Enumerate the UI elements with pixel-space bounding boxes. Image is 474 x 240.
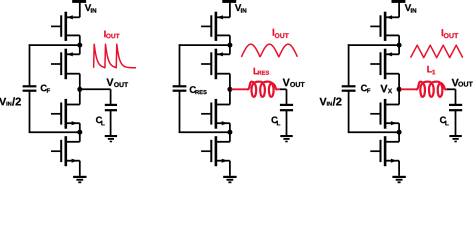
label IOUT (circuit 3, red) [442, 29, 443, 36]
ground symbol below M4 (circuit 1) [73, 176, 86, 183]
capacitor CL load cap (circuit 1) [105, 104, 117, 111]
transistor M2 PMOS (circuit 2) [201, 49, 230, 79]
label VIN (circuit 1) [85, 4, 91, 11]
power rail V_IN bar (circuit 2) [222, 0, 236, 3]
wire: flying-cap rail bottom segment (circuit 2) [179, 91, 181, 133]
label CF (circuit 3) [361, 85, 367, 92]
label VOUT (circuit 1) [106, 79, 113, 86]
transistor M1 PMOS high-side (circuit 2) [201, 12, 230, 41]
transistor M1 PMOS high-side (circuit 3) [370, 12, 399, 41]
label LRES (circuit 2, red) [254, 68, 259, 74]
label CRES (circuit 2) [190, 86, 196, 93]
label CL (circuit 1) [96, 117, 102, 124]
wire: M3 source down to node B (circuit 3) [398, 123, 400, 132]
label VIN/2 across CF (circuit 3) [320, 98, 327, 105]
node A junction dot M1-M2 (circuit 1) [77, 43, 82, 48]
label CL (circuit 2) [271, 117, 277, 124]
transistor M3 NMOS (circuit 3) [370, 99, 399, 129]
wire: M2 drain down to VOUT node (circuit 2) [229, 74, 231, 90]
VOUT node junction dot (circuit 3) [397, 87, 402, 92]
wire: flying-cap rail top segment (circuit 1) [29, 44, 31, 86]
label VIN (circuit 2) [235, 4, 241, 11]
ground symbol below CL (circuit 2) [280, 135, 292, 142]
waveform IOUT spiky pulses (circuit 1, red) [94, 44, 136, 68]
wire: node B to M4 drain (circuit 1) [79, 132, 81, 142]
wire: VOUT node to M3 drain (circuit 2) [229, 89, 231, 104]
capacitor CF flying cap (circuit 3) [342, 85, 356, 92]
label L1 (circuit 3, red) [427, 66, 432, 72]
transistor M3 NMOS (circuit 1) [51, 99, 80, 129]
wire: M2 drain down to VOUT node (circuit 1) [79, 74, 81, 90]
wire: VOUT node to M3 drain (circuit 1) [79, 89, 81, 104]
wire: M3 source down to node B (circuit 1) [79, 123, 81, 132]
capacitor CL load cap (circuit 2) [280, 104, 293, 111]
transistor M1 PMOS high-side (circuit 1) [51, 12, 80, 41]
label IOUT (circuit 2, red) [273, 29, 274, 36]
wire: down to CL (circuit 2) [286, 89, 288, 105]
inductor L1 buck inductor (circuit 3, red) [417, 82, 446, 97]
label VIN (circuit 3) [405, 4, 411, 11]
wire: CL to ground (circuit 2) [286, 110, 288, 135]
wire: LRES to VOUT corner (circuit 2) [276, 88, 281, 90]
wire: M4 source to ground (circuit 1) [79, 161, 81, 176]
waveform IOUT triangular ripple (circuit 3, red) [411, 45, 463, 57]
wire: node A to M2 source (circuit 2) [229, 45, 231, 54]
ground symbol below CL (circuit 1) [105, 135, 117, 142]
transistor M4 NMOS low-side (circuit 3) [370, 136, 399, 166]
label VX switching node (circuit 3) [380, 85, 387, 92]
label VIN/2 across CF (circuit 1) [0, 98, 6, 105]
transistor M4 NMOS low-side (circuit 1) [51, 136, 80, 166]
wire: node A to M2 source (circuit 3) [398, 45, 400, 54]
transistor M2 PMOS (circuit 1) [51, 49, 80, 79]
wire: flying-cap rail top segment (circuit 3) [348, 44, 350, 86]
transistor M4 NMOS low-side (circuit 2) [201, 136, 230, 166]
capacitor CRES resonant flying cap (circuit 2) [173, 85, 187, 92]
wire: node A to flying-cap rail top (circuit 1) [29, 44, 80, 46]
wire: VOUT node to load cap (circuit 1) [80, 88, 111, 90]
label IOUT (circuit 1, red) [104, 31, 105, 38]
node B junction dot M3-M4 (circuit 2) [227, 130, 232, 135]
power rail V_IN bar (circuit 1) [72, 0, 86, 3]
ground symbol below M4 (circuit 3) [392, 176, 405, 183]
transistor M2 PMOS (circuit 3) [370, 49, 399, 79]
ground symbol below M4 (circuit 2) [223, 176, 236, 183]
wire: V_IN rail to M1 source (circuit 2) [229, 2, 231, 17]
wire: down to CL (circuit 1) [110, 89, 112, 105]
node A junction dot M1-M2 (circuit 3) [397, 43, 402, 48]
power rail V_IN bar (circuit 3) [392, 0, 406, 3]
transistor M3 NMOS (circuit 2) [201, 99, 230, 129]
wire: M4 source to ground (circuit 3) [398, 161, 400, 176]
wire: VX node to L1 (circuit 3, red) [401, 88, 418, 90]
label VOUT (circuit 3) [452, 79, 459, 86]
wire: node B to flying-cap rail bottom (circuit 2) [179, 131, 230, 133]
wire: node B to flying-cap rail bottom (circuit 3) [348, 131, 399, 133]
waveform IOUT sinusoidal humps (circuit 2, red) [241, 44, 297, 57]
wire: node B to M4 drain (circuit 2) [229, 132, 231, 142]
wire: node B to M4 drain (circuit 3) [398, 132, 400, 142]
ground symbol below CL (circuit 3) [449, 135, 461, 142]
wire: V_IN rail to M1 source (circuit 1) [79, 2, 81, 17]
wire: VOUT node to M3 drain (circuit 3) [398, 89, 400, 104]
VOUT node junction dot (circuit 2) [227, 87, 232, 92]
wire: CL to ground (circuit 1) [110, 110, 112, 135]
wire: node A to M2 source (circuit 1) [79, 45, 81, 54]
wire: flying-cap rail bottom segment (circuit 1) [29, 91, 31, 133]
wire: VOUT node to LRES (circuit 2, red) [231, 88, 248, 90]
inductor LRES resonant inductor (circuit 2, red) [248, 82, 277, 97]
wire: M2 drain down to VOUT node (circuit 3) [398, 74, 400, 90]
wire: node A to flying-cap rail top (circuit 2) [179, 44, 230, 46]
VOUT node junction dot (circuit 1) [77, 87, 82, 92]
wire: V_IN rail to M1 source (circuit 3) [398, 2, 400, 17]
wire: node A to flying-cap rail top (circuit 3) [348, 44, 399, 46]
capacitor CL load cap (circuit 3) [449, 104, 462, 111]
wire: M3 source down to node B (circuit 2) [229, 123, 231, 132]
node A junction dot M1-M2 (circuit 2) [227, 43, 232, 48]
wire: L1 to VOUT corner (circuit 3) [445, 88, 448, 90]
node B junction dot M3-M4 (circuit 3) [397, 130, 402, 135]
wire: M1 drain down to node A (circuit 3) [398, 35, 400, 45]
capacitor CF flying cap (circuit 1) [23, 85, 37, 92]
wire: node B to flying-cap rail bottom (circuit 1) [29, 131, 80, 133]
wire: down to CL (circuit 3) [455, 89, 457, 105]
wire: M1 drain down to node A (circuit 1) [79, 35, 81, 45]
label CL (circuit 3) [440, 117, 446, 124]
label CF (circuit 1) [41, 85, 47, 92]
wire: flying-cap rail top segment (circuit 2) [179, 44, 181, 86]
node B junction dot M3-M4 (circuit 1) [77, 130, 82, 135]
wire: CL to ground (circuit 3) [455, 110, 457, 135]
label VOUT (circuit 2) [283, 79, 290, 86]
wire: flying-cap rail bottom segment (circuit 3) [348, 91, 350, 133]
wire: M1 drain down to node A (circuit 2) [229, 35, 231, 45]
wire: M4 source to ground (circuit 2) [229, 161, 231, 176]
